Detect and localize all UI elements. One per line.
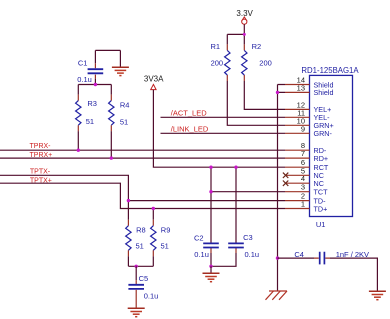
capacitor C1 — [77, 50, 103, 84]
pin 12 YEL+ — [285, 100, 331, 114]
resistor R4 — [109, 85, 130, 132]
svg-text:GRN-: GRN- — [314, 129, 333, 138]
svg-text:R8: R8 — [136, 225, 146, 234]
capacitor C2 — [194, 167, 219, 259]
wire R9 top — [152, 209, 154, 220]
svg-text:R1: R1 — [211, 42, 221, 51]
svg-text:51: 51 — [161, 242, 169, 251]
svg-text:Shield: Shield — [314, 88, 334, 97]
wire shield pin 14 — [278, 85, 286, 93]
svg-text:R9: R9 — [161, 226, 171, 235]
svg-text:51: 51 — [120, 117, 128, 126]
junction C5 node — [135, 265, 138, 268]
svg-text:3: 3 — [301, 183, 305, 192]
pin 1 TD+ — [285, 200, 327, 214]
svg-text:TPTX-: TPTX- — [30, 169, 51, 176]
chassis ground — [266, 291, 288, 300]
junction TD+/R9 — [152, 207, 155, 210]
svg-text:/ACT_LED: /ACT_LED — [171, 109, 207, 118]
resistor R8 — [126, 220, 146, 257]
pin 4 NC — [283, 174, 324, 188]
svg-text:200: 200 — [259, 59, 272, 68]
ground earth under C5 — [128, 290, 145, 317]
wire R8-R9 bottom node — [128, 256, 153, 266]
junction R3/TPRX- — [77, 149, 80, 152]
wire TD- to pin 2 — [128, 200, 285, 202]
pin 6 RCT — [285, 158, 329, 172]
pin 5 NC — [283, 166, 324, 180]
net /LINK_LED — [161, 125, 286, 134]
capacitor C5 — [128, 266, 158, 300]
junction C2 ground — [209, 265, 212, 268]
pin 10 GRN+ — [285, 116, 334, 130]
svg-text:R4: R4 — [120, 100, 130, 109]
junction shield pin 13 — [276, 91, 279, 94]
pin 8 RD- — [285, 141, 327, 155]
svg-text:0.1u: 0.1u — [194, 250, 209, 259]
net TPTX+ — [0, 177, 285, 208]
resistor R2 — [242, 42, 272, 81]
ground earth right of C4 — [369, 291, 386, 299]
wire 3V3A to RCT pin 6 — [153, 90, 285, 167]
svg-text:3V3A: 3V3A — [144, 74, 164, 83]
capacitor C3 — [228, 167, 259, 259]
junction shield/C4 — [276, 256, 279, 259]
pin 13 Shield — [285, 83, 333, 97]
wire 3.3V node — [227, 24, 244, 44]
wire R4 bottom — [110, 131, 112, 158]
net TPRX+ — [0, 152, 285, 159]
junction C3/RCT — [234, 166, 237, 169]
wire C1 top — [95, 49, 120, 51]
pin 3 TCT — [285, 183, 328, 197]
resistor R9 — [151, 220, 171, 257]
wire TCT to pin 3 — [211, 191, 285, 193]
svg-text:0.1u: 0.1u — [245, 250, 260, 259]
power symbol 3.3V — [236, 9, 253, 24]
svg-text:TD+: TD+ — [314, 204, 328, 213]
svg-text:RD1-125BAG1A: RD1-125BAG1A — [301, 66, 359, 75]
svg-text:0.1u: 0.1u — [144, 291, 159, 300]
svg-text:U1: U1 — [316, 220, 326, 229]
junction C1/R3/R4 — [94, 83, 97, 86]
junction C2/TCT — [209, 190, 212, 193]
svg-text:200: 200 — [211, 59, 224, 68]
svg-text:RD+: RD+ — [314, 154, 329, 163]
svg-text:9: 9 — [301, 124, 305, 133]
svg-text:C2: C2 — [194, 234, 204, 243]
wire R3 bottom — [77, 131, 79, 150]
junction C2/RCT — [209, 166, 212, 169]
junction R4/TPRX+ — [110, 156, 113, 159]
power symbol 3V3A — [144, 74, 164, 89]
svg-text:3.3V: 3.3V — [236, 9, 253, 18]
resistor R3 — [76, 85, 97, 132]
svg-text:51: 51 — [136, 241, 144, 250]
resistor R1 — [211, 42, 231, 81]
svg-text:0.1u: 0.1u — [77, 75, 92, 84]
svg-text:C3: C3 — [243, 233, 253, 242]
svg-text:R2: R2 — [252, 42, 262, 51]
wire shield vertical — [278, 92, 286, 291]
pin 11 YEL- — [285, 108, 330, 122]
pin 2 TD- — [285, 192, 326, 206]
ground earth under C2/C3 — [203, 266, 220, 281]
wire R2 to pin 12 — [244, 81, 285, 109]
junction 3.3V — [243, 33, 246, 36]
svg-text:13: 13 — [297, 83, 305, 92]
ground earth near C1 — [112, 50, 129, 75]
svg-text:TPRX-: TPRX- — [30, 143, 52, 150]
svg-text:51: 51 — [86, 117, 94, 126]
svg-text:C5: C5 — [139, 274, 149, 283]
wire C4 to ground — [330, 258, 377, 291]
net /ACT_LED — [161, 109, 286, 118]
svg-text:C1: C1 — [78, 59, 88, 68]
pin 14 Shield — [285, 76, 333, 90]
svg-text:/LINK_LED: /LINK_LED — [171, 125, 209, 134]
svg-text:C4: C4 — [294, 250, 304, 259]
svg-text:7: 7 — [301, 149, 305, 158]
pin 7 RD+ — [285, 149, 328, 163]
net TPRX- — [0, 143, 285, 150]
svg-text:1: 1 — [301, 200, 305, 209]
junction TD-/R8 — [127, 199, 130, 202]
svg-text:TCT: TCT — [314, 188, 329, 197]
wire C2-C3 ground node — [211, 253, 236, 266]
connector U1 box — [310, 75, 353, 216]
wire R1 to pin 10 — [227, 81, 285, 125]
svg-text:R3: R3 — [87, 99, 97, 108]
net TPTX- — [0, 169, 128, 220]
wire R3-R4 top node — [78, 84, 111, 86]
pin 9 GRN- — [285, 124, 332, 138]
capacitor C4 — [278, 250, 370, 265]
